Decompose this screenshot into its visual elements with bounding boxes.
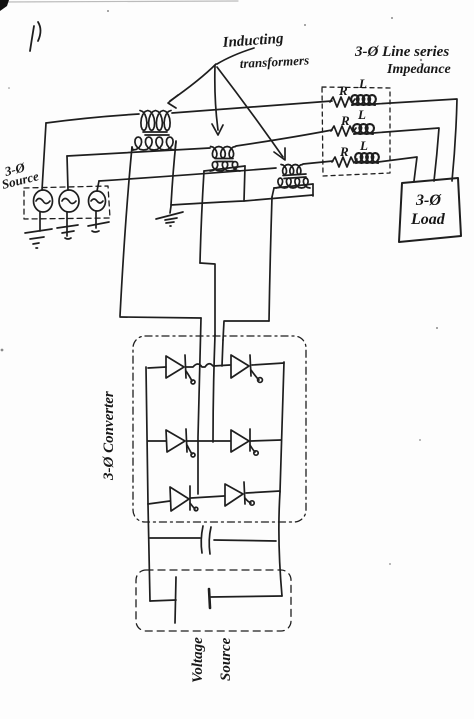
transformer T1 core (143, 131, 167, 133)
thyristor row3 left (148, 486, 198, 511)
label 3-Phi Load (410, 192, 446, 228)
wire dc left rail down (148, 504, 150, 601)
transformer T3 secondary (272, 178, 313, 197)
wire T3 leg jog to converter (223, 321, 269, 340)
capacitor C2 (dc source) (150, 577, 282, 623)
scan corner blob (0, 0, 9, 11)
arrow to T1 (170, 64, 216, 101)
resistor R phase B (331, 126, 356, 136)
svg-text:transformers: transformers (239, 52, 309, 71)
wire phase A (source 1 to T1 primary) (46, 114, 139, 123)
AC source V3 (89, 181, 106, 211)
AC source V2 (59, 156, 79, 212)
svg-text:L: L (359, 138, 368, 153)
wire T1 secondary left leg down (120, 147, 132, 316)
dashed enclosure 3-phase source (24, 186, 110, 219)
converter right rail (280, 362, 284, 492)
wire phase C (source 3 to T3 primary) (99, 168, 276, 181)
annotation line from label to arrow hub (217, 48, 254, 64)
svg-text:Load: Load (410, 211, 446, 228)
label 3-Phi Line series Impedance (354, 44, 451, 77)
thyristor row2 right (231, 429, 281, 455)
wire T3 secondary left leg down (269, 197, 272, 321)
transformer T3 primary (281, 165, 303, 175)
wire row1 to load (375, 99, 457, 181)
wire neutral junction line (171, 195, 313, 205)
AC source V1 (34, 123, 53, 212)
load box (399, 178, 461, 242)
svg-text:L: L (358, 76, 367, 91)
resistor R phase C (332, 157, 357, 167)
transformer T2 core (215, 158, 233, 160)
svg-text:3-Ø Converter: 3-Ø Converter (101, 391, 117, 481)
svg-text:L: L (357, 107, 366, 122)
dashed enclosure voltage source (136, 570, 291, 631)
wire T2 secondary right leg (244, 166, 245, 201)
label 3-Phi Source (0, 159, 40, 192)
svg-text:Voltage: Voltage (190, 637, 206, 683)
wire row2 to load (373, 128, 439, 181)
converter left rail (146, 367, 148, 504)
inductor L phase C (355, 153, 379, 163)
svg-text:R: R (339, 144, 349, 159)
svg-text:R: R (338, 83, 348, 98)
svg-text:Source: Source (218, 637, 234, 681)
thyristor row1 left (148, 355, 195, 384)
ground (neutral junction) (156, 206, 183, 226)
label Voltage Source (190, 637, 234, 683)
wire phase C (T3 to R row3) (303, 161, 333, 164)
thyristor row2 left (148, 429, 195, 457)
wire converter phase drop v1 (to row 3) (198, 318, 201, 494)
wire T1 secondary right leg down (171, 142, 176, 205)
wire row2 center (187, 440, 230, 442)
wire T1 leg horizontal to converter drop (120, 317, 201, 318)
wire row3 to load (378, 157, 417, 181)
thyristor row1 right (231, 355, 284, 382)
svg-text:3-Ø Line series: 3-Ø Line series (354, 44, 449, 60)
transformer T1 primary (140, 111, 171, 131)
wire row3 center (191, 496, 224, 498)
wire phase A (T1 to R row1) (172, 101, 332, 113)
ground (source V2) (57, 212, 78, 239)
inductor L phase A (351, 95, 376, 105)
wire converter phase drop v3 (to row 1) (222, 340, 223, 366)
wire row1 center with hops (186, 364, 230, 367)
scan smudge top edge (0, 1, 238, 2)
label 1) (30, 22, 41, 51)
wire T2 secondary left leg down (200, 171, 204, 263)
dashed enclosure 3-phase converter (133, 336, 306, 522)
wire phase B (T2 to R row2) (236, 130, 332, 146)
capacitor C1 (150, 526, 276, 554)
wire dc right rail down (279, 492, 282, 596)
ground (source V1) (25, 212, 52, 248)
wire phase B (source 2 to T2 primary) (67, 148, 210, 156)
wire T2 leg jog (200, 263, 215, 335)
transformer T2 secondary (204, 162, 245, 172)
dashed enclosure line impedance (322, 87, 390, 176)
svg-text:Impedance: Impedance (386, 62, 451, 77)
wire converter phase drop v2 (to row 2) (213, 335, 215, 442)
arrow to T3 (217, 67, 283, 157)
svg-text:3-Ø: 3-Ø (415, 192, 442, 209)
label Inducting transformers (221, 31, 309, 71)
arrow to T2 (215, 65, 218, 130)
transformer T2 primary (211, 147, 236, 159)
thyristor row3 right (225, 482, 280, 506)
inductor L phase B (353, 124, 374, 134)
ground (source V3) (88, 211, 109, 232)
scan specks (1, 10, 438, 565)
transformer T1 secondary (132, 137, 176, 150)
resistor R phase A (330, 97, 355, 107)
transformer T3 core (283, 174, 306, 176)
